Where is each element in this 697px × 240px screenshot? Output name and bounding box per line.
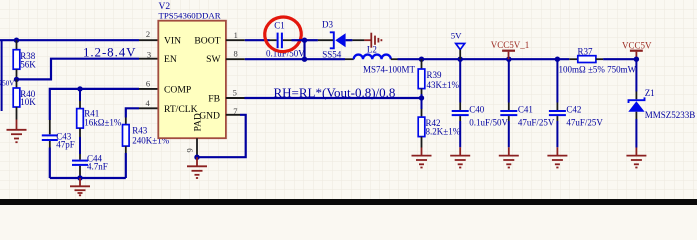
svg-text:EN: EN — [164, 54, 177, 65]
svg-text:5: 5 — [233, 88, 237, 98]
bottom black bar — [0, 199, 697, 205]
resistor R42 — [418, 98, 460, 148]
svg-text:C40: C40 — [469, 105, 485, 115]
svg-text:8: 8 — [233, 48, 237, 58]
svg-text:D3: D3 — [322, 19, 333, 29]
svg-text:VCC5V: VCC5V — [622, 40, 652, 50]
node VCC5V_1/C41 junction — [506, 57, 511, 62]
pin 7 stub GND — [226, 114, 240, 116]
svg-text:47pF: 47pF — [56, 140, 75, 150]
wire output rail — [398, 58, 570, 60]
wire GND loop pin7 to pin9 — [197, 115, 246, 157]
svg-text:BOOT: BOOT — [194, 35, 220, 46]
capacitor C43 — [42, 120, 75, 178]
node C42 junction — [555, 57, 560, 62]
node pin9 junction — [194, 155, 199, 160]
rotated ground at D3 anode — [364, 33, 381, 48]
svg-text:9: 9 — [185, 148, 195, 152]
resistor R37 — [559, 47, 638, 75]
svg-text:16kΩ±1%: 16kΩ±1% — [84, 117, 122, 127]
svg-text:COMP: COMP — [164, 84, 191, 95]
wire COMP net — [50, 89, 139, 120]
resistor R43 — [123, 118, 170, 179]
ground under C40 — [450, 147, 470, 167]
pin 4 stub — [139, 107, 158, 109]
svg-text:8.2K±1%: 8.2K±1% — [426, 126, 461, 136]
ground under pin9 — [187, 157, 207, 178]
pin 6 stub — [139, 88, 158, 90]
annotation red circle around C1 — [263, 15, 304, 54]
capacitor C1 — [266, 20, 305, 58]
ground under C41 — [499, 147, 519, 167]
power port VCC5V_1 — [491, 40, 530, 59]
svg-text:RT/CLK: RT/CLK — [164, 104, 198, 115]
wire VIN rail — [0, 39, 139, 41]
svg-text:RH=RL*(Vout-0.8)/0.8: RH=RL*(Vout-0.8)/0.8 — [274, 85, 396, 100]
svg-text:MS74-100MT: MS74-100MT — [363, 65, 416, 75]
svg-text:2: 2 — [146, 29, 150, 39]
resistor R39 — [418, 59, 459, 98]
wire EN net — [17, 59, 140, 80]
svg-text:750V: 750V — [0, 79, 14, 87]
capacitor C41 — [500, 59, 555, 147]
wire drop to SW line — [303, 40, 305, 59]
svg-text:Z1: Z1 — [645, 88, 655, 98]
svg-text:R43: R43 — [132, 126, 148, 136]
diode D3 SS54 — [305, 19, 365, 59]
svg-text:FB: FB — [208, 94, 220, 105]
wire C1 to junction — [292, 39, 305, 41]
svg-text:VIN: VIN — [164, 35, 181, 46]
pin 2 stub — [139, 39, 158, 41]
wire FB net — [245, 97, 422, 99]
ground under bottom rail — [70, 178, 90, 195]
ground under R40 — [7, 120, 27, 143]
svg-text:1.2-8.4V: 1.2-8.4V — [83, 45, 136, 60]
svg-text:6: 6 — [146, 78, 150, 88]
node COMP/R41 junction — [77, 86, 82, 91]
svg-text:C1: C1 — [274, 20, 285, 30]
pin 9 stub PAD — [196, 138, 198, 157]
svg-text:C42: C42 — [566, 105, 581, 115]
svg-text:3: 3 — [147, 50, 151, 60]
svg-text:VCC5V_1: VCC5V_1 — [491, 40, 530, 50]
capacitor C42 — [549, 59, 604, 147]
node L2/R39 junction — [419, 57, 424, 62]
wire SW line — [245, 58, 345, 60]
resistor R38 — [13, 40, 36, 79]
power port 5V — [451, 31, 465, 60]
svg-text:SS54: SS54 — [322, 49, 342, 59]
wire BOOT to C1 — [245, 39, 270, 41]
svg-text:R37: R37 — [578, 47, 594, 57]
node 5V/C40 junction — [458, 57, 463, 62]
capacitor C40 — [452, 59, 509, 147]
wire bottom rail — [50, 177, 126, 179]
wire RT/CLK net — [126, 108, 139, 117]
svg-text:C41: C41 — [518, 105, 533, 115]
svg-text:10K: 10K — [20, 97, 36, 107]
ground under Z1 — [626, 148, 646, 168]
svg-text:5V: 5V — [451, 31, 462, 41]
svg-text:MMSZ5233B: MMSZ5233B — [645, 110, 696, 120]
node R38 top junction — [14, 38, 19, 43]
svg-text:100mΩ ±5% 750mW: 100mΩ ±5% 750mW — [559, 65, 637, 75]
pin 3 stub — [139, 58, 158, 60]
pin 8 stub SW — [226, 58, 245, 60]
node VCC5V/Z1 junction — [634, 57, 639, 62]
svg-text:43K±1%: 43K±1% — [427, 80, 460, 90]
svg-text:47uF/25V: 47uF/25V — [518, 117, 555, 127]
svg-text:1: 1 — [234, 30, 238, 40]
pin 1 stub BOOT — [226, 39, 245, 41]
wire left edge drop — [1, 40, 3, 111]
svg-text:TPS54360DDAR: TPS54360DDAR — [159, 11, 221, 21]
svg-text:L2: L2 — [367, 45, 377, 55]
svg-text:SW: SW — [206, 54, 221, 65]
svg-text:PAD: PAD — [193, 113, 204, 131]
node SW line junction — [302, 57, 307, 62]
svg-text:0.1uF/50V: 0.1uF/50V — [469, 117, 508, 127]
svg-text:4: 4 — [145, 98, 150, 108]
svg-text:47uF/25V: 47uF/25V — [566, 117, 603, 127]
inductor L2 — [354, 45, 416, 75]
node FB junction — [419, 95, 424, 100]
node bottom rail junction — [77, 175, 82, 180]
IC V2 TPS54360DDAR — [145, 2, 237, 153]
svg-text:R39: R39 — [427, 70, 443, 80]
zener diode Z1 MMSZ5233B — [628, 59, 695, 147]
svg-text:4.7nF: 4.7nF — [87, 162, 108, 172]
ground under R42 — [412, 148, 432, 168]
pin 5 stub FB — [226, 97, 245, 99]
resistor R40 — [13, 79, 36, 119]
resistor R41 — [77, 89, 122, 154]
power port VCC5V — [622, 40, 652, 59]
node divider junction — [14, 77, 19, 82]
svg-text:56K: 56K — [20, 59, 36, 69]
capacitor C44 — [72, 153, 108, 178]
ground under C42 — [547, 147, 567, 167]
node BOOT/SW junction — [302, 38, 307, 43]
